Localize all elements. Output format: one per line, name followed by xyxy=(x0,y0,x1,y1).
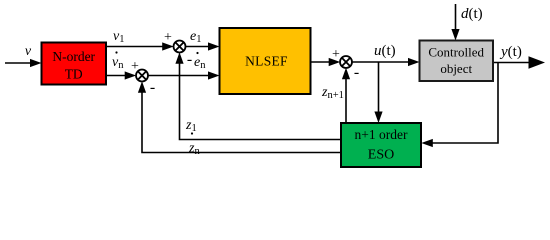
svg-text:TD: TD xyxy=(65,67,83,82)
svg-text:Controlled: Controlled xyxy=(428,45,484,60)
svg-text:NLSEF: NLSEF xyxy=(245,54,288,69)
svg-text:+: + xyxy=(131,59,139,74)
svg-text:-: - xyxy=(150,79,155,96)
svg-text:y(t): y(t) xyxy=(499,44,522,60)
wire y feedback down and left into ESO xyxy=(421,63,498,148)
svg-text:+: + xyxy=(164,30,172,45)
wire u NLSEF to summer S3 xyxy=(311,58,341,66)
wire zn from ESO left to summer S2 xyxy=(138,81,341,152)
wire vn TD to summer S2 xyxy=(106,71,136,79)
ellipsis dot between e1 and en xyxy=(196,52,198,54)
svg-text:-: - xyxy=(187,51,192,68)
svg-text:-: - xyxy=(354,64,359,81)
wire u branch down into ESO xyxy=(374,62,382,123)
svg-text:d(t): d(t) xyxy=(461,6,483,22)
block ESO n+1 order xyxy=(341,123,421,167)
ellipsis dot below z1 xyxy=(191,132,193,134)
ellipsis dot between v1 and vn xyxy=(115,51,117,53)
summing junction S3 xyxy=(340,56,352,68)
wire z1 from ESO left to summer S1 xyxy=(175,52,341,139)
wire v1 TD to summer S1 xyxy=(106,42,174,50)
wire z n+1 from ESO top to summer S3 xyxy=(342,68,350,123)
svg-text:N-order: N-order xyxy=(52,49,95,64)
block Controlled object xyxy=(420,41,494,82)
svg-text:u(t): u(t) xyxy=(374,43,396,59)
wire e1 summer S1 to NLSEF xyxy=(185,42,219,50)
wire d(t) into controlled object xyxy=(451,4,459,41)
block NLSEF xyxy=(220,28,311,94)
svg-text:+: + xyxy=(332,47,340,62)
summing junction S2 xyxy=(136,70,148,82)
svg-text:ESO: ESO xyxy=(368,148,394,163)
wire input v xyxy=(5,59,42,67)
wire y(t) output xyxy=(493,56,545,69)
wire u summer S3 to controlled object xyxy=(352,58,420,66)
block TD N-order xyxy=(42,43,107,85)
summing junction S1 xyxy=(174,41,186,53)
wire en summer S2 to NLSEF xyxy=(148,71,220,79)
svg-text:object: object xyxy=(440,61,472,76)
svg-text:n+1 order: n+1 order xyxy=(355,127,408,142)
svg-text:v: v xyxy=(25,44,32,59)
